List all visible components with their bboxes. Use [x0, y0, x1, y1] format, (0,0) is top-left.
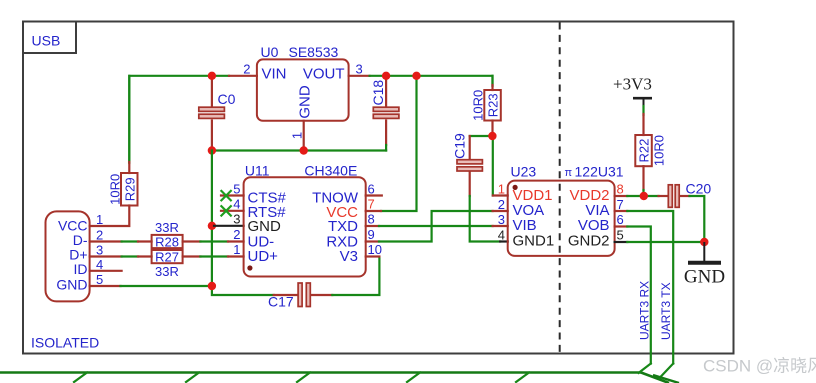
svg-text:+3V3: +3V3 [613, 75, 652, 94]
capacitor C20 leads [659, 195, 690, 197]
svg-text:SE8533: SE8533 [289, 44, 339, 60]
pin stub U11 pin4 RTS# [221, 210, 244, 212]
svg-text:USB: USB [32, 33, 61, 49]
svg-text:2: 2 [233, 227, 240, 242]
svg-text:C18: C18 [370, 80, 386, 106]
sheet border frame [23, 22, 734, 354]
node GND pin3 junction [208, 222, 216, 230]
svg-text:6: 6 [617, 212, 624, 227]
svg-text:VIN: VIN [262, 65, 287, 82]
node C0 bottom rail junction [208, 146, 216, 154]
isolation barrier dashed line [559, 23, 561, 353]
svg-text:GND: GND [56, 277, 87, 293]
svg-text:UART3 RX: UART3 RX [637, 281, 651, 340]
capacitor C0 leads [211, 76, 213, 151]
wire RXD riser to VOA row [379, 211, 493, 242]
op-amp U0 regulator SE8533 body [257, 59, 349, 120]
capacitor C18 leads [385, 76, 387, 145]
wire R28 to UD- [200, 240, 228, 242]
svg-text:8: 8 [617, 182, 624, 197]
wire C19 bottom to GND1 [470, 196, 500, 242]
svg-text:33R: 33R [155, 220, 179, 235]
svg-text:1: 1 [498, 182, 505, 197]
pin stub U23 pin7 VIA [615, 210, 628, 212]
svg-text:VOB: VOB [578, 217, 610, 234]
pin stub U11 pin3 GND (black) [214, 225, 244, 227]
wire D- to R28 [122, 240, 138, 242]
pin stub U0 pin2 VIN [229, 75, 257, 77]
svg-text:VOUT: VOUT [303, 65, 345, 82]
power symbol +3V3 [613, 75, 652, 108]
wire bus slash 5 [516, 373, 529, 383]
svg-text:4: 4 [96, 257, 103, 272]
svg-text:10R0: 10R0 [108, 174, 123, 205]
pin stub U11 pin5 CTS# [221, 194, 244, 196]
svg-text:U0: U0 [261, 44, 279, 60]
wire TXD to VIB [379, 225, 493, 227]
no-connect X on pin5 [221, 190, 232, 201]
wire GND2 to ground node [627, 241, 704, 243]
wire GND junction down to C17 row [212, 286, 274, 295]
capacitor C17 plates [298, 283, 310, 307]
wire VIN net: corner to C0 top node [129, 76, 212, 162]
svg-text:122U31: 122U31 [575, 164, 624, 180]
wire R23 junction to C19 [470, 135, 493, 137]
svg-text:5: 5 [96, 272, 103, 287]
node C18 junction [382, 72, 390, 80]
svg-text:2: 2 [243, 62, 250, 77]
pin stub U11 pin6 TNOW (no connect) [366, 194, 382, 196]
resistor R23 leads [491, 76, 493, 136]
svg-text:C17: C17 [268, 294, 294, 310]
wire +3V3 to R22 [642, 106, 644, 115]
pin stub U11 pin1 UD+ [228, 255, 244, 257]
wire bus end second diagonal [653, 375, 679, 383]
pin stub U11 pin9 RXD [366, 240, 379, 242]
svg-text:4: 4 [498, 228, 505, 243]
no-connect X on pin4 [221, 205, 232, 216]
wire VDD2 node [627, 195, 658, 197]
pin stub U11 pin2 UD- [228, 240, 244, 242]
pin stub U23 pin5 GND2 (black) [615, 241, 628, 243]
resistor R27 leads [138, 255, 200, 257]
node VDD2/R22/C20 junction [640, 192, 648, 200]
resistor R29 leads [90, 76, 130, 226]
wire VCC drop from VOUT node [381, 76, 417, 211]
svg-text:5: 5 [233, 182, 240, 197]
svg-text:V3: V3 [340, 248, 358, 265]
pin stub U11 pin10 V3 [366, 255, 380, 257]
resistor R27 body [152, 250, 183, 263]
sheet label USB [23, 22, 76, 54]
svg-text:UD+: UD+ [248, 248, 279, 265]
pin stub U0 pin3 VOUT [349, 75, 370, 77]
svg-text:1: 1 [96, 212, 103, 227]
svg-text:GND: GND [684, 267, 725, 288]
svg-text:GND: GND [248, 218, 282, 235]
wire C20 to GND corner [690, 196, 705, 242]
svg-text:CH340E: CH340E [304, 163, 357, 179]
node VOUT/C0 junction [208, 72, 216, 80]
pin stub U23 pin3 VIB [493, 225, 508, 227]
svg-text:33R: 33R [155, 264, 179, 279]
svg-text:TXD: TXD [328, 218, 358, 235]
wire VIA to UART3 TX drop [627, 211, 673, 364]
svg-text:7: 7 [617, 197, 624, 212]
svg-text:3: 3 [96, 243, 103, 258]
svg-text:4: 4 [233, 197, 240, 212]
svg-text:3: 3 [233, 212, 240, 227]
wire D+ to R27 [122, 255, 138, 257]
U11 pin-1 marker dot [247, 265, 252, 270]
wire bus slash 3 [297, 373, 310, 383]
svg-text:R28: R28 [155, 234, 179, 249]
svg-text:10: 10 [368, 242, 382, 257]
svg-text:8: 8 [368, 212, 375, 227]
svg-text:CSDN @凉晓风: CSDN @凉晓风 [703, 357, 816, 376]
pin stub connector pin2 D- [90, 240, 122, 242]
node R23/C19/VDD1 junction [488, 132, 496, 140]
wire VOUT net horizontal [370, 76, 493, 86]
wire VIN node to U0 pin2 [212, 75, 229, 77]
resistor R28 leads [138, 240, 200, 242]
svg-text:1: 1 [233, 242, 240, 257]
svg-text:C19: C19 [452, 133, 468, 159]
resistor R22 body [635, 135, 652, 166]
capacitor C18 plates [373, 107, 399, 118]
svg-text:3: 3 [356, 62, 363, 77]
U0 designator and value [261, 44, 339, 60]
capacitor C0 plates [199, 107, 225, 118]
capacitor C17 leads [274, 294, 333, 296]
U23 pin-1 marker dot [513, 185, 518, 190]
svg-text:3: 3 [498, 212, 505, 227]
svg-text:5: 5 [617, 228, 624, 243]
wire R27 to UD+ [200, 255, 228, 257]
pin stub U0 pin1 GND [303, 121, 305, 148]
svg-text:ID: ID [74, 261, 88, 277]
svg-text:π: π [565, 167, 573, 179]
resistor R22 leads [642, 114, 644, 190]
wire VOB to UART3 RX drop [627, 227, 651, 364]
wire GND pin5 to junction [121, 285, 212, 287]
wire VDD1 riser [492, 136, 494, 196]
svg-text:6: 6 [368, 182, 375, 197]
pin stub connector pin3 D+ [90, 255, 122, 257]
pin stub connector pin4 ID (no connect) [90, 270, 122, 272]
node GND2/C20 junction [700, 238, 708, 246]
wire bus slash 1 [74, 373, 87, 383]
svg-text:R23: R23 [486, 93, 501, 117]
svg-text:R29: R29 [123, 177, 138, 201]
transistor-like IC U11 CH340E body [244, 177, 366, 276]
svg-text:U23: U23 [511, 164, 537, 180]
svg-text:C0: C0 [218, 91, 236, 107]
svg-text:UART3 TX: UART3 TX [659, 282, 673, 340]
svg-text:GND: GND [297, 85, 314, 119]
wire C17 to V3 riser [332, 258, 379, 295]
svg-text:R22: R22 [637, 139, 652, 163]
U23 value 122U31 [565, 164, 624, 180]
capacitor C20 plates [668, 185, 679, 208]
svg-text:9: 9 [368, 227, 375, 242]
svg-text:10R0: 10R0 [471, 90, 486, 121]
capacitor C19 plates [457, 160, 482, 171]
svg-text:VIB: VIB [513, 217, 537, 234]
svg-text:ISOLATED: ISOLATED [31, 335, 99, 351]
pin stub U23 pin8 VDD2 [615, 195, 628, 197]
pin stub U23 pin4 GND1 (black) [500, 240, 508, 242]
pin stub U11 pin8 TXD [366, 225, 379, 227]
pin stub U11 pin7 VCC [366, 210, 381, 212]
connector J1 USB body [46, 211, 90, 301]
svg-text:R27: R27 [155, 249, 179, 264]
wire UART3 TX tail [660, 364, 674, 379]
svg-text:1: 1 [290, 132, 305, 139]
capacitor C19 leads [469, 136, 471, 196]
IC U23 digital isolator body [508, 181, 615, 256]
svg-text:2: 2 [96, 228, 103, 243]
resistor R28 body [152, 235, 183, 248]
resistor R23 body [484, 90, 501, 121]
pin stub connector pin5 GND [90, 285, 121, 287]
node U0 GND rail junction [300, 146, 308, 154]
U11 designator and value [245, 163, 357, 179]
wire bus slash 2 [186, 373, 199, 383]
svg-text:2: 2 [498, 197, 505, 212]
svg-text:GND1: GND1 [513, 232, 555, 249]
node GND pin5 junction [208, 282, 216, 290]
resistor R29 body [121, 173, 138, 206]
pin stub U23 pin2 VOA [493, 210, 508, 212]
wire vertical GND bus left of U11 [211, 151, 213, 287]
ground symbol GND [684, 242, 725, 288]
node VCC-drop junction [412, 72, 420, 80]
pin stub U23 pin6 VOB [615, 225, 628, 227]
wire R22 bottom to VDD2 node [642, 190, 644, 196]
wire bus end diagonal [641, 373, 669, 383]
svg-text:GND2: GND2 [568, 232, 610, 249]
wire UART3 RX tail [639, 364, 651, 374]
pin stub U23 pin1 VDD1 [493, 194, 508, 196]
svg-text:U11: U11 [245, 163, 270, 179]
wire C18 bottom to GND rail [385, 145, 387, 151]
wire GND rail under U0 [212, 149, 386, 151]
svg-text:10R0: 10R0 [652, 135, 667, 166]
svg-text:C20: C20 [686, 181, 712, 197]
svg-text:7: 7 [368, 197, 375, 212]
wire bus slash 4 [407, 373, 420, 383]
wire bottom harness bus [0, 371, 641, 374]
